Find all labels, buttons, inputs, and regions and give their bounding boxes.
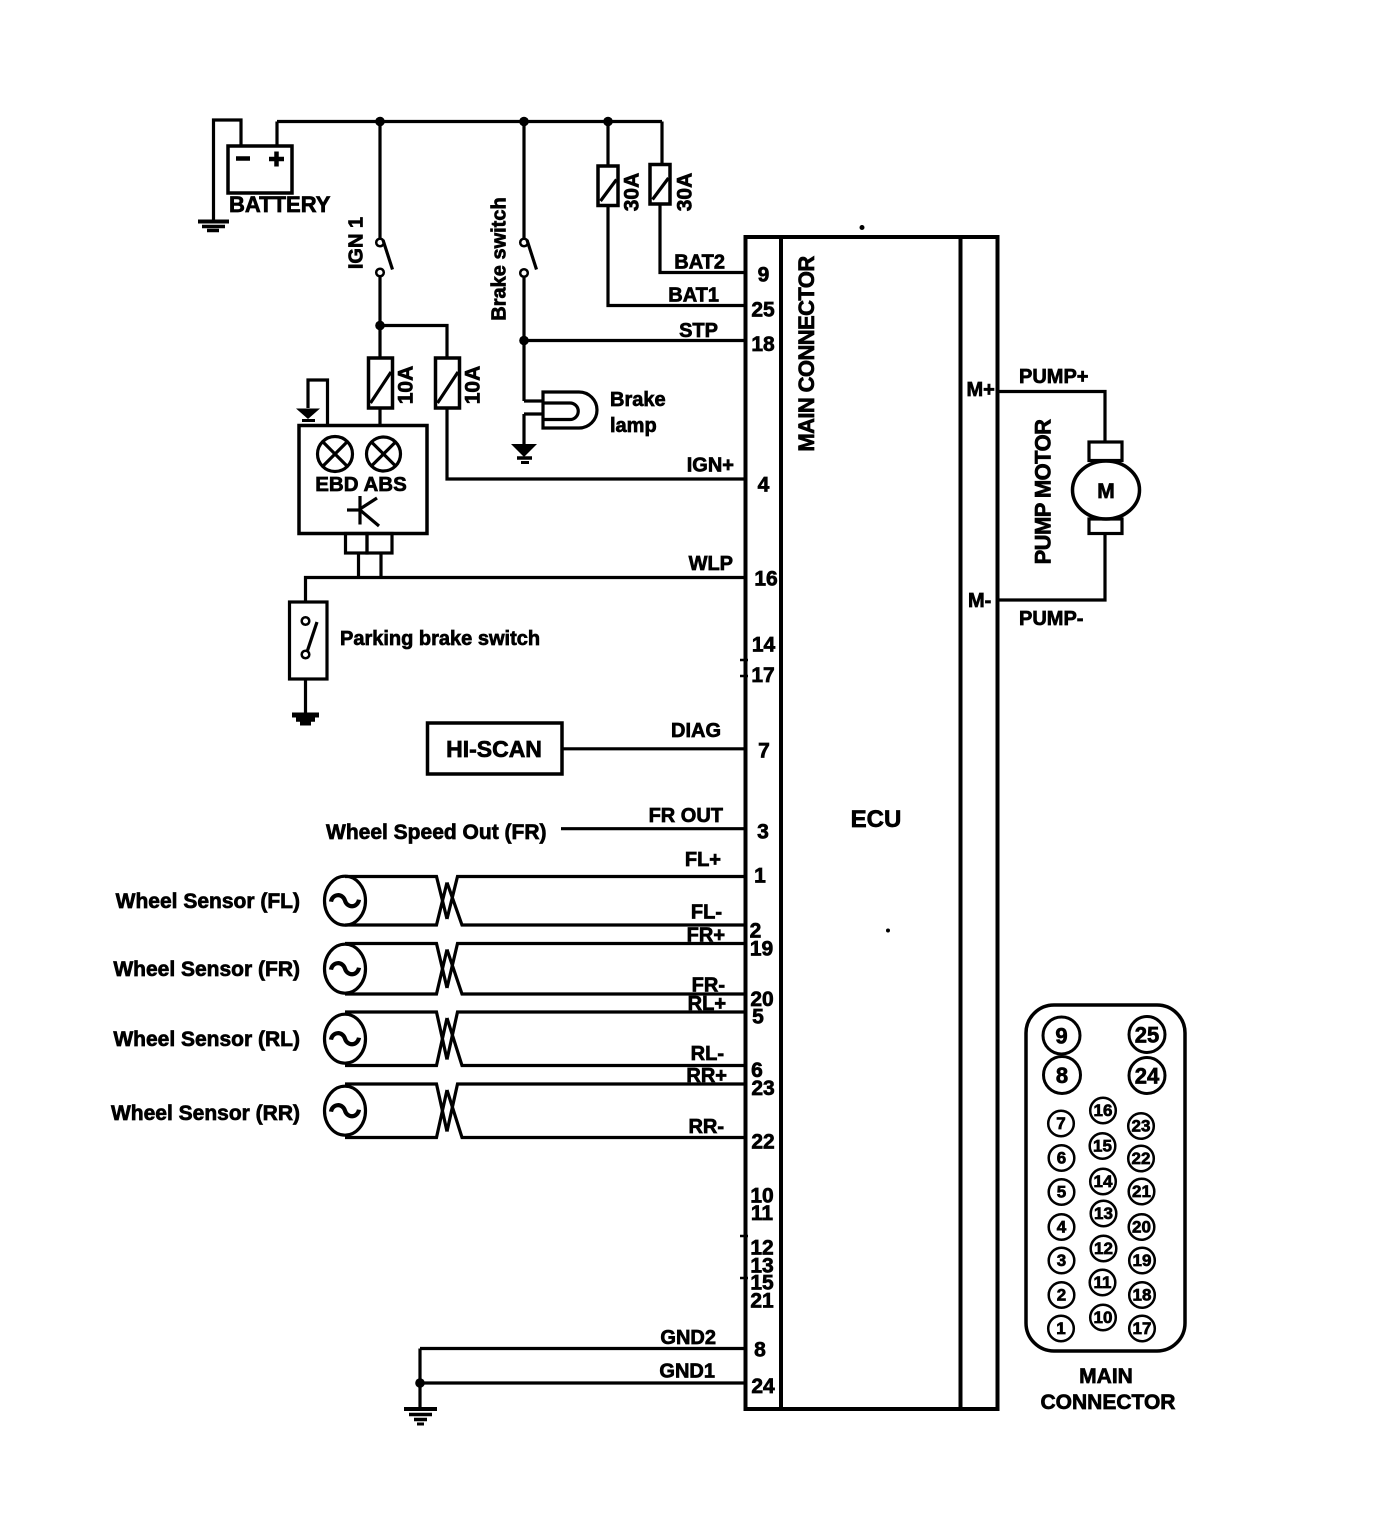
svg-text:25: 25 [751,299,775,322]
svg-text:Wheel Sensor (FR): Wheel Sensor (FR) [113,958,300,981]
svg-text:30A: 30A [621,173,644,212]
svg-text:9: 9 [758,264,770,287]
svg-text:lamp: lamp [610,415,657,437]
svg-text:24: 24 [751,1375,775,1398]
svg-text:21: 21 [750,1290,774,1313]
svg-text:7: 7 [758,740,770,763]
svg-text:ECU: ECU [851,806,902,833]
svg-text:18: 18 [1133,1286,1152,1305]
svg-text:Brake: Brake [610,389,666,411]
svg-text:DIAG: DIAG [671,720,721,742]
svg-text:21: 21 [1132,1182,1151,1201]
svg-text:23: 23 [751,1077,774,1100]
svg-text:6: 6 [1057,1149,1066,1168]
svg-text:18: 18 [751,333,775,356]
svg-text:4: 4 [758,474,770,497]
svg-text:FL+: FL+ [685,849,721,871]
svg-text:FR OUT: FR OUT [649,805,723,827]
svg-text:BAT1: BAT1 [668,285,719,307]
svg-text:MAIN: MAIN [1079,1365,1133,1388]
svg-text:15: 15 [1093,1137,1112,1156]
svg-text:22: 22 [751,1131,774,1154]
svg-text:19: 19 [750,938,773,961]
svg-text:17: 17 [1133,1319,1152,1338]
svg-text:Wheel Sensor (RL): Wheel Sensor (RL) [113,1028,300,1051]
svg-text:M: M [1097,480,1115,503]
svg-text:10A: 10A [395,366,418,405]
svg-text:M-: M- [968,590,991,612]
svg-text:10: 10 [1094,1308,1113,1327]
svg-text:5: 5 [752,1006,764,1029]
svg-text:IGN+: IGN+ [687,455,734,477]
svg-text:16: 16 [754,568,777,591]
svg-text:Brake switch: Brake switch [489,197,511,320]
svg-text:24: 24 [1135,1064,1160,1089]
svg-text:M+: M+ [967,379,995,401]
svg-text:CONNECTOR: CONNECTOR [1041,1391,1176,1414]
svg-text:PUMP+: PUMP+ [1019,366,1088,388]
svg-text:PUMP-: PUMP- [1019,608,1083,630]
svg-text:14: 14 [1094,1172,1113,1191]
svg-text:16: 16 [1094,1101,1113,1120]
svg-text:FL-: FL- [691,902,722,924]
svg-text:GND2: GND2 [660,1327,716,1349]
svg-text:1: 1 [754,865,766,888]
svg-text:2: 2 [1057,1286,1066,1305]
svg-text:Wheel Speed Out (FR): Wheel Speed Out (FR) [326,821,547,844]
svg-text:IGN 1: IGN 1 [346,217,368,269]
svg-text:11: 11 [751,1202,774,1225]
svg-text:13: 13 [1094,1204,1113,1223]
svg-text:MAIN CONNECTOR: MAIN CONNECTOR [794,256,819,452]
svg-text:12: 12 [1094,1239,1113,1258]
svg-text:22: 22 [1132,1149,1151,1168]
svg-text:20: 20 [1132,1218,1151,1237]
svg-text:8: 8 [1056,1063,1068,1088]
svg-text:3: 3 [1057,1251,1066,1270]
svg-text:19: 19 [1133,1251,1152,1270]
svg-text:BAT2: BAT2 [674,252,725,274]
svg-text:RL+: RL+ [688,993,726,1015]
svg-text:RR-: RR- [688,1116,724,1138]
svg-text:7: 7 [1056,1114,1065,1133]
svg-text:30A: 30A [674,173,697,212]
svg-text:11: 11 [1094,1273,1112,1292]
svg-text:1: 1 [1056,1319,1065,1338]
svg-text:PUMP MOTOR: PUMP MOTOR [1031,419,1056,564]
svg-text:STP: STP [679,320,718,342]
svg-text:4: 4 [1057,1218,1067,1237]
svg-text:WLP: WLP [689,553,733,575]
svg-text:Wheel Sensor (RR): Wheel Sensor (RR) [111,1102,300,1125]
svg-text:RR+: RR+ [686,1065,727,1087]
svg-text:BATTERY: BATTERY [229,192,331,217]
svg-text:Parking brake switch: Parking brake switch [340,628,540,650]
svg-text:8: 8 [754,1339,766,1362]
svg-text:9: 9 [1055,1024,1067,1049]
svg-text:3: 3 [757,821,769,844]
svg-text:HI-SCAN: HI-SCAN [446,736,542,762]
svg-text:Wheel Sensor (FL): Wheel Sensor (FL) [116,890,300,913]
svg-text:14: 14 [752,634,776,657]
svg-text:RL-: RL- [691,1043,724,1065]
svg-text:10A: 10A [462,366,485,405]
svg-text:23: 23 [1132,1117,1151,1136]
svg-text:EBD ABS: EBD ABS [315,473,407,496]
svg-text:GND1: GND1 [659,1361,715,1383]
svg-text:FR+: FR+ [687,925,725,947]
svg-text:17: 17 [751,664,774,687]
svg-text:5: 5 [1057,1183,1066,1202]
svg-text:25: 25 [1135,1023,1159,1048]
